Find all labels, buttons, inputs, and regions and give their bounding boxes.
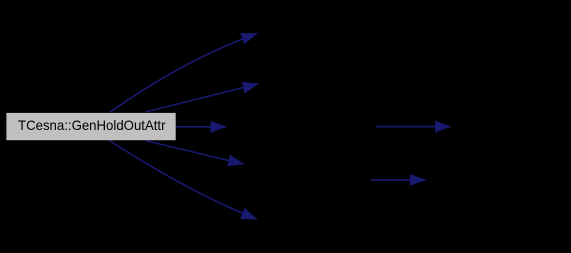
edge 6: middle node -> right node: [376, 126, 451, 128]
edge 7: fourth node -> lower right node: [371, 179, 425, 181]
node TCesna::GenHoldOutAttr: [6, 113, 175, 140]
edge 5: GenHoldOutAttr -> bottom node: [109, 140, 257, 219]
edge 3: GenHoldOutAttr -> middle node: [176, 126, 227, 128]
edge 1: GenHoldOutAttr -> top node: [110, 34, 257, 113]
svg-text:TCesna::GenHoldOutAttr: TCesna::GenHoldOutAttr: [18, 117, 166, 133]
edge 2: GenHoldOutAttr -> second node: [146, 84, 259, 112]
edge 4: GenHoldOutAttr -> fourth node: [146, 141, 244, 165]
